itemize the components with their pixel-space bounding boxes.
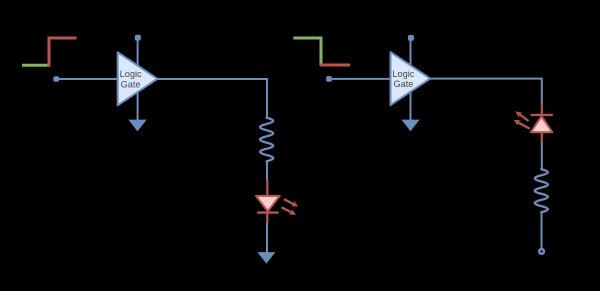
svg-text:Gate: Gate: [393, 79, 413, 89]
op-amp U2 logic gate buffer triangle: [391, 52, 431, 105]
resistor R2: [535, 169, 548, 212]
input step waveform (rising edge) low segment: [22, 64, 50, 67]
LED D1 cathode bar: [257, 211, 278, 213]
LED D2 emission arrow 2: [514, 120, 530, 129]
open terminal node (bottom right): [539, 249, 544, 254]
svg-text:Logic: Logic: [392, 69, 414, 79]
wire gate U2 output to node B corner: [430, 79, 542, 104]
wire input to gate U1: [59, 78, 118, 80]
input terminal node (right): [326, 76, 332, 82]
ground arrow (left circuit): [257, 252, 275, 264]
wire gate U1 output to node A corner: [157, 79, 267, 118]
svg-text:Gate: Gate: [121, 79, 141, 89]
wire LED D1 to ground: [266, 223, 268, 253]
LED D1 anode lead: [266, 180, 268, 197]
LED D1 emission arrow 1: [284, 199, 298, 206]
wire input to gate U2: [332, 78, 391, 80]
wire R2 to bottom terminal: [541, 212, 543, 250]
LED D1 emission arrow 2: [282, 207, 297, 215]
LED D2 emission arrow 1: [515, 111, 528, 121]
gate U2 ground arrow: [401, 120, 419, 132]
input step waveform (falling edge) high and edge segment: [293, 38, 321, 66]
gate U2 top supply terminal: [408, 35, 414, 41]
op-amp U1 logic gate buffer triangle: [118, 52, 158, 105]
LED D2 anode lead: [541, 132, 543, 143]
LED D2 cathode bar: [531, 114, 553, 116]
wire LED D2 to resistor R2: [541, 143, 543, 170]
wire gate U2 supply-to-ground vertical: [410, 40, 412, 120]
gate U1 top supply terminal: [135, 35, 141, 41]
gate U1 ground arrow: [128, 120, 146, 132]
LED D1 triangle: [256, 196, 280, 211]
input step waveform (rising edge) edge and high segment: [49, 38, 77, 67]
svg-text:Logic: Logic: [120, 69, 142, 79]
wire gate U1 supply-to-ground vertical: [137, 40, 139, 120]
wire R1 to LED D1: [266, 161, 268, 182]
LED D1 cathode lead: [266, 213, 268, 223]
LED D2 triangle: [531, 116, 553, 132]
resistor R1: [260, 118, 273, 161]
input terminal node (left): [53, 76, 59, 82]
LED D2 cathode lead: [541, 103, 543, 115]
input step waveform (falling edge) low segment: [320, 64, 350, 67]
